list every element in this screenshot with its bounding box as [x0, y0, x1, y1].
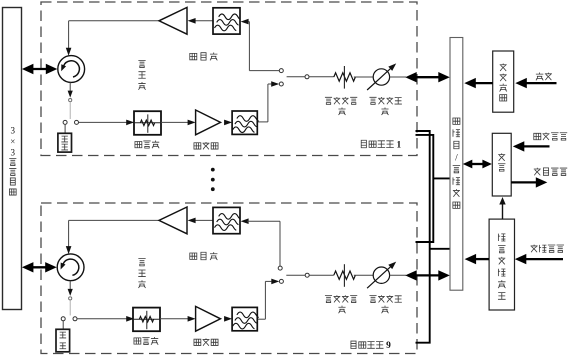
label: 低噪放 (module 1): [194, 142, 218, 149]
wire: amplifier output to circulator (module 1): [69, 20, 159, 22]
wire: LNA to RX filter w/ arrowhead (module 1): [224, 120, 232, 126]
label: 环行器 (module 9): [138, 259, 145, 288]
label: 数控移相器 (module 1): [369, 97, 401, 115]
thick arrow: 发射信号 into switch: [522, 145, 550, 147]
label: 接收信号: [534, 168, 567, 176]
wire: contact to limiter w/ arrowhead (module 1): [79, 121, 127, 123]
wire: pole to attenuator (module 9): [309, 274, 334, 276]
wire: contact down to load (module 1): [64, 124, 66, 133]
label: 收发组件1: [361, 140, 401, 150]
switch pole contact below circulator (module 1): [69, 99, 72, 102]
wire: pole stub left (module 1): [287, 76, 305, 78]
amplifier triangle (module 1): [159, 7, 187, 34]
label: 数控衰减器 (module 9): [325, 295, 357, 313]
wire: LNA to RX filter w/ arrowhead (module 9): [224, 316, 232, 322]
thick arrow: 供电 into power module: [525, 82, 557, 84]
circulator circle (module 1): [58, 56, 85, 83]
load box 负载 (module 1): [58, 133, 72, 152]
label: 放大器 (module 9): [190, 252, 218, 260]
limiter box (module 9): [133, 308, 160, 332]
wire: RX filter up to lower throw (module 9): [265, 280, 271, 282]
wire: TX filter to amplifier w/ arrowhead (module 9): [194, 219, 213, 221]
label: 3×3天线阵列 (vertical): [9, 125, 16, 195]
wire: pole to attenuator (module 1): [309, 76, 334, 78]
RX band-pass filter (module 9): [232, 307, 257, 330]
T/R module 9 dashed enclosure: [41, 203, 417, 354]
TX band-pass filter (module 9): [213, 207, 240, 233]
thick arrow: switch out to 接收信号: [511, 181, 536, 183]
label: 放大器 (module 1): [190, 52, 218, 60]
switch lower throw contact (module 9): [279, 279, 283, 283]
svg-text:1: 1: [396, 140, 401, 150]
limiter throw contact (module 1): [75, 120, 79, 124]
digital attenuator (module 9): [334, 271, 356, 279]
RX band-pass filter (module 1): [232, 111, 257, 134]
arrowhead into lower throw (module 9): [271, 279, 279, 285]
thick stub line B: module1 border to module9 border via x433.3 with branch to network: [416, 135, 451, 242]
label: 限幅器 (module 1): [135, 141, 159, 149]
thick arrow: beam control unit into network: [474, 258, 489, 260]
svg-text:×: ×: [10, 137, 15, 147]
label: 电源模块 (vertical): [499, 63, 506, 101]
thick arrow: 控制信号 into beam control unit: [524, 258, 563, 260]
wire: contact down to load (module 9): [62, 321, 64, 330]
digital phase shifter (module 9): [373, 267, 389, 283]
arrowhead into TX filter (module 9): [241, 218, 249, 224]
wire: amplifier output to circulator (module 9): [69, 219, 159, 221]
switch pole contact (module 9): [305, 273, 309, 277]
arrowhead down to switch pole (module 9): [68, 289, 73, 296]
label: 控制信号: [531, 245, 564, 253]
switch blade (open) (module 9): [69, 300, 71, 315]
TX band-pass filter (module 1): [213, 8, 240, 34]
ellipsis dots (modules 2-8 omitted): [211, 168, 215, 172]
svg-text:3: 3: [11, 125, 16, 135]
9-way power divider/combiner network box: [450, 38, 463, 291]
switch lower throw contact (module 1): [279, 82, 283, 86]
wire: circulator down to switch (module 9): [69, 281, 71, 290]
label: 发射信号: [534, 132, 567, 140]
arrowhead into circulator top (module 1): [66, 48, 72, 56]
arrow: beam control unit up to switch: [502, 203, 504, 220]
T/R module 1 dashed enclosure: [41, 2, 417, 156]
label: 开关 (vertical): [498, 153, 505, 171]
switch pole contact below circulator (module 9): [69, 297, 72, 300]
limiter throw contact (module 9): [73, 317, 77, 321]
wire: limiter to LNA w/ arrowhead (module 1): [161, 121, 188, 123]
label: 环行器 (module 1): [138, 60, 145, 89]
thick bidirectional arrow: antenna to circulator (module 9): [30, 266, 50, 268]
wire: limiter to LNA w/ arrowhead (module 9): [160, 318, 188, 320]
circulator rotation arrow (module 1): [64, 61, 80, 77]
svg-text:3: 3: [11, 147, 16, 157]
LNA triangle (module 1): [196, 110, 221, 135]
amplifier triangle (module 9): [159, 207, 187, 234]
switch blade (open) (module 1): [69, 102, 71, 119]
arrowhead down to switch pole (module 1): [68, 91, 73, 98]
wire: switch upper throw to TX filter (module 9): [247, 220, 280, 222]
beam control unit box 波束控制单元: [489, 219, 514, 310]
wire: RX filter up to lower throw (module 1): [268, 83, 272, 85]
thick bidirectional arrow: antenna to circulator (module 1): [30, 68, 50, 70]
svg-text:/: /: [455, 153, 458, 163]
switch upper throw contact (module 9): [278, 266, 282, 270]
arrowhead into circulator top (module 9): [66, 246, 72, 254]
svg-text:9: 9: [386, 341, 391, 351]
load throw contact (module 1): [63, 120, 67, 124]
wire: TX filter to amplifier w/ arrowhead (module 1): [194, 20, 213, 22]
wire: circulator down to switch (module 1): [69, 82, 71, 91]
LNA triangle (module 9): [196, 306, 221, 331]
label: 限幅器 (module 9): [134, 337, 158, 345]
thick arrow: power module into network: [474, 82, 493, 84]
wire: switch upper throw to TX filter (module 1): [248, 21, 249, 23]
wire: contact to limiter w/ arrowhead (module 9): [77, 318, 127, 320]
digital phase shifter (module 1): [373, 69, 389, 85]
power module box 电源模块: [493, 51, 514, 112]
thick stub line A: module1 border to module9 border via x429.7 with branch to network: [416, 131, 451, 343]
thick bidirectional arrow: module 1 to combiner network: [413, 76, 441, 78]
arrowhead into lower throw (module 1): [271, 81, 279, 87]
limiter box (module 1): [134, 111, 161, 135]
label: 数控移相器 (module 9): [369, 295, 401, 313]
circulator rotation arrow (module 9): [63, 259, 79, 275]
label: 波束控制单元 (vertical): [498, 234, 506, 300]
wire: pole stub left (module 9): [286, 274, 305, 276]
circulator circle (module 9): [57, 254, 84, 281]
thick bidirectional arrow: network and switch: [470, 163, 485, 165]
switch box 开关: [492, 133, 511, 196]
label: 数控衰减器 (module 1): [325, 97, 357, 115]
digital attenuator (module 1): [334, 73, 356, 81]
switch pole contact (module 1): [305, 75, 309, 79]
label: 供电: [536, 72, 552, 80]
switch upper throw contact (module 1): [279, 69, 283, 73]
load throw contact (module 9): [61, 317, 65, 321]
label: 收发组件9: [351, 341, 391, 351]
arrowhead into TX filter (module 1): [241, 19, 249, 25]
label: 低噪放 (module 9): [194, 338, 218, 345]
load box 负载 (module 9): [56, 329, 70, 352]
thick bidirectional arrow: module 9 to combiner network: [413, 274, 441, 276]
label: 九功分/合成网络 (vertical): [453, 118, 460, 208]
antenna array box (3x3 antenna array): [3, 8, 22, 310]
